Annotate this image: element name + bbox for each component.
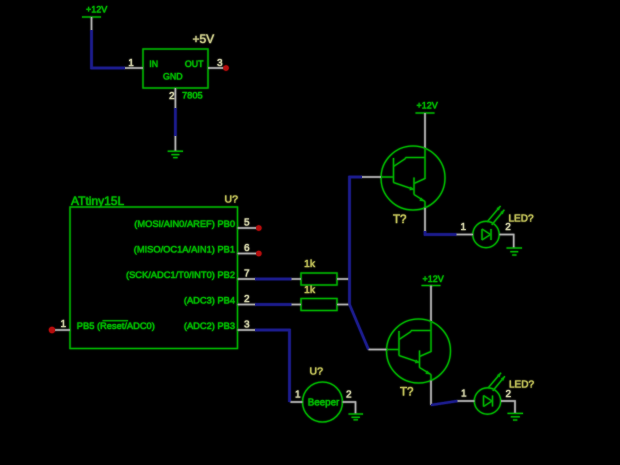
wire T2 emitter to LED2 [431,401,458,405]
svg-text:2: 2 [505,222,511,233]
svg-text:(SCK/ADC1/T0/INT0) PB2: (SCK/ADC1/T0/INT0) PB2 [126,270,235,280]
svg-text:1: 1 [60,319,66,330]
svg-text:PB5 (Reset/ADC0): PB5 (Reset/ADC0) [77,321,155,331]
svg-text:7805: 7805 [182,90,203,100]
svg-text:+12V: +12V [417,100,438,110]
svg-text:U?: U? [225,194,239,206]
power symbol +12V net (above T2) [422,274,444,322]
LED LED2 [458,373,516,414]
unconnected pin marker PB0 (pin 5) [256,225,262,231]
svg-text:(MOSI/AIN0/AREF) PB0: (MOSI/AIN0/AREF) PB0 [134,219,235,229]
svg-text:ATtiny15L: ATtiny15L [71,194,124,208]
IC U1 ATtiny15L body [55,207,256,349]
wire PB4 to R2 [255,303,292,305]
svg-text:LED?: LED? [509,380,534,391]
svg-text:1k: 1k [304,258,316,270]
svg-text:2: 2 [244,294,250,305]
svg-text:Beeper: Beeper [308,397,340,408]
svg-text:5: 5 [244,218,250,229]
svg-text:+12V: +12V [423,274,444,284]
svg-text:7: 7 [244,269,250,280]
unconnected pin marker (7805 OUT pin 3) [223,65,229,71]
transistor T2 darlington NPN [369,319,451,405]
svg-text:1: 1 [461,222,467,233]
svg-text:3: 3 [244,320,250,331]
svg-text:6: 6 [244,243,250,254]
ground symbol GND4 (below LED2) [508,413,524,420]
svg-text:U?: U? [310,366,324,378]
svg-text:GND: GND [163,71,183,81]
svg-text:1k: 1k [304,284,316,296]
svg-text:+5V: +5V [193,32,215,46]
svg-text:(ADC3) PB4: (ADC3) PB4 [184,296,235,306]
svg-text:+12V: +12V [86,5,107,15]
wire +12V to 7805 IN pin [92,30,126,68]
svg-text:1: 1 [128,58,134,69]
regulator U2 7805 body [125,49,223,108]
svg-text:IN: IN [149,59,158,69]
svg-text:2: 2 [346,390,352,401]
resistor R1 1k [292,273,349,285]
LED LED1 [457,206,514,248]
svg-text:OUT: OUT [185,59,204,69]
wire diagonal junction to T2 base [350,305,369,350]
wire T1 emitter to LED1 [425,231,457,235]
svg-text:(ADC2) PB3: (ADC2) PB3 [184,321,235,331]
unconnected pin marker PB5 (pin 1) [49,327,55,333]
resistor R2 1k [292,299,349,311]
ground symbol GND3 (below beeper) [349,414,364,420]
wire junction vertical R1/R2 to T1 base [350,177,363,305]
svg-text:LED?: LED? [509,213,534,224]
svg-text:T?: T? [393,214,406,226]
ground symbol GND2 (below LED1) [507,248,523,255]
svg-text:1: 1 [461,389,467,400]
svg-text:2: 2 [506,389,512,400]
wire PB3 to beeper pin 1 [255,330,290,402]
svg-text:2: 2 [169,91,175,102]
buzzer U? Beeper [291,382,356,422]
power symbol +12V net (top left) [82,5,107,30]
ground symbol GND1 (below 7805) [168,136,183,158]
svg-text:1: 1 [295,390,301,401]
svg-text:(MISO/OC1A/AIN1) PB1: (MISO/OC1A/AIN1) PB1 [134,245,235,255]
wire PB2 to R1 [255,278,292,280]
svg-text:T?: T? [400,387,413,399]
unconnected pin marker PB1 (pin 6) [256,251,262,257]
transistor T1 darlington NPN [362,146,445,231]
svg-text:3: 3 [217,58,223,69]
wire 7805 GND to ground [174,108,176,136]
power symbol +12V net (above T1) [416,100,438,148]
